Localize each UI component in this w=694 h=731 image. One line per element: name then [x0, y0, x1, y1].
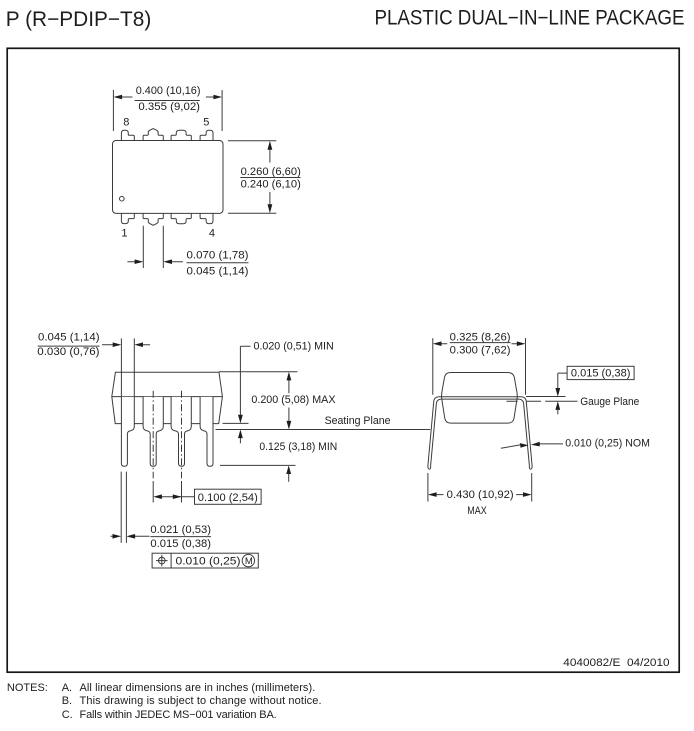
svg-text:NOTES:: NOTES:: [7, 682, 48, 694]
svg-text:Seating Plane: Seating Plane: [325, 415, 391, 427]
dim 0.045/0.030 arrows: [102, 344, 150, 346]
dim 0.325/0.300 arrows: [441, 343, 517, 345]
left leg: [428, 397, 439, 470]
svg-text:0.020 (0,51) MIN: 0.020 (0,51) MIN: [254, 341, 334, 353]
dim 0.045/0.030 text: [37, 331, 99, 358]
dim 0.200 MAX dim line: [288, 380, 290, 421]
svg-text:0.021 (0,53): 0.021 (0,53): [150, 524, 211, 536]
dim 0.100 box: [195, 489, 262, 504]
svg-text:B.: B.: [62, 695, 72, 707]
pin 1 tab (bottom left, hump left): [121, 213, 134, 223]
svg-text:0.010 (0,25) NOM: 0.010 (0,25) NOM: [565, 437, 650, 449]
svg-text:MAX: MAX: [467, 505, 487, 517]
end view body: [442, 373, 518, 424]
svg-text:4: 4: [209, 227, 215, 239]
dim 0.100 arrows: [162, 496, 195, 498]
dim 0.010 NOM leader: [501, 445, 520, 448]
svg-text:0.240 (6,10): 0.240 (6,10): [241, 179, 301, 191]
dim 0.260/0.240 ext lines: [228, 141, 276, 213]
svg-text:Falls within JEDEC MS−001 vari: Falls within JEDEC MS−001 variation BA.: [80, 709, 277, 721]
svg-text:0.015 (0,38): 0.015 (0,38): [150, 538, 211, 550]
pin 6 tab (hump center round): [171, 130, 191, 140]
shoulder line upper: [438, 396, 565, 398]
svg-text:This drawing is subject to cha: This drawing is subject to change withou…: [80, 695, 322, 707]
gauge plane dashed line: [507, 400, 578, 402]
shoulder line lower: [441, 398, 519, 400]
pin 2 tab (hump center): [143, 213, 163, 225]
pin 7 tab (hump center peak): [143, 129, 163, 141]
dim 0.070/0.045 arrows: [127, 261, 182, 263]
dim 0.430 MAX arrows: [436, 494, 523, 496]
svg-text:1: 1: [121, 227, 127, 239]
dim 0.325/0.300 ext lines: [433, 338, 526, 395]
svg-text:4040082/E 04/2010: 4040082/E 04/2010: [563, 657, 669, 669]
dim 0.200 MAX ext line: [219, 371, 297, 373]
svg-text:P (R−PDIP−T8): P (R−PDIP−T8): [6, 8, 152, 31]
dim 0.021/0.015 text: [150, 524, 211, 550]
svg-text:0.070 (1,78): 0.070 (1,78): [187, 249, 249, 261]
side view body outline: [112, 372, 223, 423]
dim 0.400/0.355 text: [136, 85, 201, 113]
svg-text:0.300 (7,62): 0.300 (7,62): [450, 344, 511, 356]
pin 4 tab (hump right): [200, 213, 213, 223]
pin 8 tab (top left, hump left): [121, 130, 134, 140]
feature control frame: [152, 553, 258, 568]
lead tip ext line: [220, 464, 296, 466]
dim 0.021/0.015 ext lines: [121, 472, 126, 543]
0.020 lower arrow: [239, 438, 241, 444]
svg-text:0.400 (10,16): 0.400 (10,16): [136, 85, 201, 97]
position symbol: [159, 557, 166, 564]
dim 0.021/0.015 arrows: [111, 535, 150, 537]
svg-text:0.200 (5,08) MAX: 0.200 (5,08) MAX: [251, 394, 336, 406]
centerline lead 2: [152, 391, 154, 479]
svg-text:0.045 (1,14): 0.045 (1,14): [187, 265, 249, 277]
svg-text:8: 8: [123, 116, 129, 128]
pin 3 tab (hump center round): [171, 213, 191, 223]
lead 1 shoulder+lead: [121, 397, 134, 466]
dim 0.015 box: [567, 366, 634, 379]
right leg: [522, 397, 533, 470]
svg-text:Gauge Plane: Gauge Plane: [580, 396, 639, 408]
svg-text:0.030 (0,76): 0.030 (0,76): [37, 346, 99, 358]
dim 0.400/0.355 arrows: [122, 96, 214, 98]
top view package body: [113, 141, 224, 214]
dim 0.100 ext lines: [153, 481, 181, 503]
dim 0.070/0.045 text: [187, 249, 249, 277]
svg-text:0.430 (10,92): 0.430 (10,92): [447, 489, 514, 501]
svg-text:C.: C.: [62, 709, 73, 721]
svg-text:0.260 (6,60): 0.260 (6,60): [241, 166, 301, 178]
body bottom ext line: [223, 422, 249, 424]
centerline lead 3: [181, 391, 183, 479]
dim 0.325/0.300 text: [450, 331, 511, 356]
dim 0.260/0.240 text: [241, 166, 301, 191]
lead 3 shoulder+lead: [171, 397, 191, 466]
seating plane line: [216, 429, 431, 431]
svg-text:M: M: [245, 556, 253, 567]
lead 2 shoulder+lead: [143, 397, 163, 466]
0.015 leader: [558, 373, 567, 388]
notes: [7, 682, 322, 721]
svg-text:0.355 (9,02): 0.355 (9,02): [138, 101, 200, 113]
pin 5 tab (hump right): [200, 130, 213, 140]
svg-text:0.125 (3,18) MIN: 0.125 (3,18) MIN: [259, 441, 337, 453]
svg-text:0.015 (0,38): 0.015 (0,38): [571, 368, 631, 380]
svg-text:A.: A.: [62, 682, 72, 694]
dim 0.260/0.240 arrows: [269, 150, 271, 205]
lead 4 shoulder+lead: [200, 397, 213, 466]
dim 0.400/0.355 ext lines: [113, 90, 222, 131]
svg-text:0.045 (1,14): 0.045 (1,14): [38, 331, 100, 343]
lead 1 ext lines (0.045 dim): [121, 338, 134, 396]
side view parting line: [112, 396, 223, 398]
dim 0.070/0.045 ext lines: [143, 226, 163, 268]
dim 0.430 MAX ext lines: [428, 473, 532, 502]
svg-text:0.325 (8,26): 0.325 (8,26): [450, 331, 511, 343]
svg-text:All linear dimensions are in i: All linear dimensions are in inches (mil…: [80, 682, 316, 694]
svg-text:0.010 (0,25): 0.010 (0,25): [176, 556, 241, 568]
M circle modifier: [242, 554, 254, 566]
svg-text:5: 5: [203, 116, 209, 128]
svg-text:PLASTIC DUAL−IN−LINE PACKAGE: PLASTIC DUAL−IN−LINE PACKAGE: [375, 7, 685, 30]
svg-text:0.100 (2,54): 0.100 (2,54): [198, 492, 258, 504]
pin index circle: [120, 196, 125, 201]
